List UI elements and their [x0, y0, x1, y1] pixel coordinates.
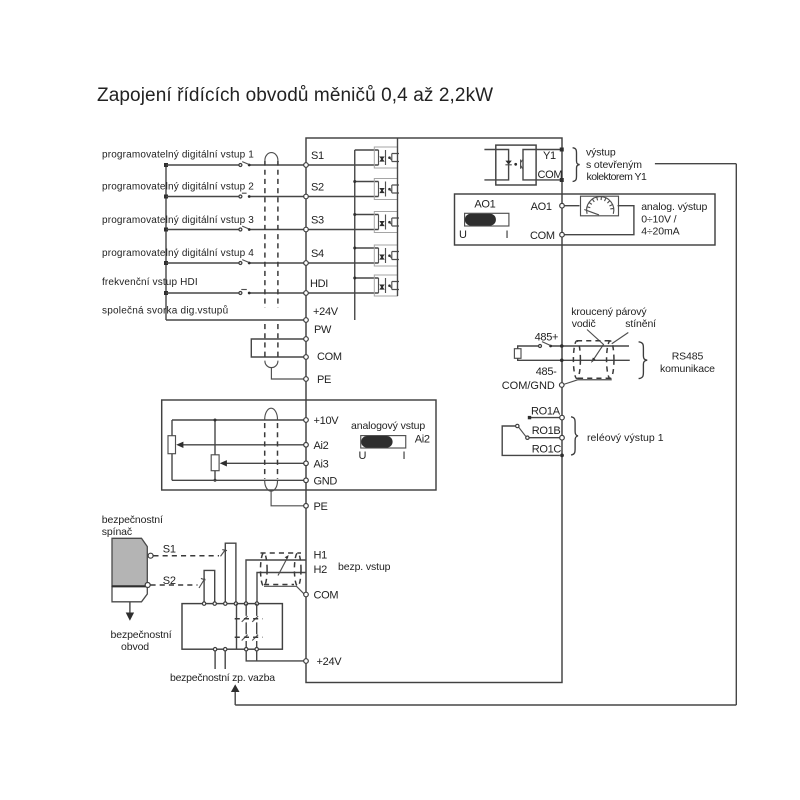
- node safety box bottom 4: [255, 648, 258, 651]
- node S1 bus junction: [164, 163, 168, 167]
- wire safety column C to +24V: [256, 651, 258, 661]
- node RO1A fixed contact: [528, 416, 531, 419]
- svg-text:S1: S1: [163, 543, 176, 555]
- svg-text:AO1: AO1: [531, 201, 552, 213]
- wire 485+ row: [518, 346, 629, 349]
- potentiometer Ai3: [214, 420, 216, 455]
- svg-text:PE: PE: [317, 374, 331, 386]
- wire H2 row: [257, 573, 306, 604]
- wire Y1 feedback to right: [655, 163, 736, 165]
- terminal safety S1: [148, 553, 153, 558]
- svg-text:H1: H1: [314, 550, 328, 562]
- wire S3 row into opto: [308, 229, 378, 231]
- brace Y1 output: [573, 148, 580, 182]
- optocoupler S4: [374, 245, 399, 266]
- resistor RS485 termination: [514, 349, 521, 359]
- wire HDI row: [166, 292, 304, 294]
- node safety box top 4: [234, 602, 237, 605]
- svg-text:Ai2: Ai2: [415, 434, 430, 446]
- node safety box top 2: [213, 602, 216, 605]
- wire shield drain to PE: [271, 368, 303, 380]
- terminal +24V safety: [304, 659, 309, 664]
- wire safety S1 loop: [225, 543, 236, 603]
- terminal RO1A: [560, 415, 565, 420]
- svg-text:kroucený párový: kroucený párový: [571, 306, 647, 318]
- terminal GND: [304, 478, 309, 483]
- terminal COM/GND: [559, 383, 564, 388]
- wire meter to COM: [564, 206, 634, 235]
- svg-text:U: U: [359, 450, 367, 462]
- svg-text:výstup: výstup: [586, 146, 616, 158]
- svg-text:S2: S2: [311, 182, 324, 194]
- contact safety relay C1: [252, 616, 258, 622]
- node Y1 terminal: [560, 148, 564, 152]
- potentiometer Ai2: [171, 420, 173, 436]
- svg-text:analog. výstup: analog. výstup: [641, 201, 707, 213]
- svg-text:programovatelný digitální vstu: programovatelný digitální vstup 4: [102, 248, 254, 259]
- svg-text:Ai2: Ai2: [314, 440, 329, 452]
- terminal S3: [304, 227, 309, 232]
- svg-text:RO1B: RO1B: [532, 425, 561, 437]
- wire S2 row into opto: [308, 196, 378, 198]
- node rail HDI: [353, 277, 356, 280]
- svg-text:S4: S4: [311, 248, 324, 260]
- terminal RO1B: [560, 435, 565, 440]
- svg-text:0÷10V /: 0÷10V /: [641, 214, 676, 226]
- shield analog input: [264, 423, 266, 479]
- svg-text:programovatelný digitální vstu: programovatelný digitální vstup 1: [102, 150, 254, 161]
- svg-text:I: I: [403, 450, 406, 462]
- node safety box top 5: [244, 602, 247, 605]
- wire safety S1 dashed: [153, 555, 219, 557]
- wire feedback stub 2: [224, 651, 226, 669]
- wire S3 row: [166, 229, 304, 231]
- terminal PE: [304, 377, 309, 382]
- node safety box top 3: [224, 602, 227, 605]
- switch S3: [239, 228, 242, 231]
- svg-text:bezpečnostní: bezpečnostní: [102, 514, 163, 526]
- meter analog output: [581, 196, 619, 216]
- wire optocoupler collector chain: [397, 138, 399, 296]
- svg-text:programovatelný digitální vstu: programovatelný digitální vstup 2: [102, 182, 254, 193]
- switch HDI: [239, 292, 242, 295]
- terminal PE analog: [304, 504, 309, 509]
- switch 485+: [539, 345, 542, 348]
- pointer vodic: [587, 330, 604, 362]
- node S3 bus junction: [164, 228, 168, 232]
- svg-text:komunikace: komunikace: [660, 363, 715, 375]
- node safety box bottom 3: [245, 648, 248, 651]
- wire opto S3 anode: [355, 214, 379, 216]
- node safety box bottom 1: [213, 648, 216, 651]
- node S2 bus junction: [164, 195, 168, 199]
- wire feedback bottom: [235, 704, 736, 706]
- terminal S2: [304, 194, 309, 199]
- wire safety to +24V: [246, 651, 304, 661]
- AO1 outer box: [455, 194, 716, 245]
- wire opto S4 anode: [355, 247, 379, 249]
- shield digital inputs upper: [264, 161, 266, 309]
- node rail S4: [353, 247, 356, 250]
- svg-text:RO1C: RO1C: [532, 444, 562, 456]
- contact safety relay B2: [242, 635, 248, 641]
- wire S1 row into opto: [308, 164, 378, 166]
- contact safety relay B1: [242, 616, 248, 622]
- switch AO1 U/I selector: [465, 213, 509, 226]
- svg-text:COM: COM: [530, 230, 555, 242]
- svg-text:stínění: stínění: [625, 318, 656, 330]
- svg-text:H2: H2: [314, 564, 328, 576]
- contact safety input: [278, 557, 288, 576]
- terminal PW: [304, 337, 309, 342]
- wire Ai3 row: [224, 462, 304, 464]
- contact safety relay C2: [252, 635, 258, 641]
- svg-text:bezpečnostní: bezpečnostní: [111, 629, 172, 641]
- node safety box bottom 2: [224, 648, 227, 651]
- shield tube RS485: [573, 341, 614, 379]
- terminal COM safety: [304, 592, 309, 597]
- optocoupler Y1 output: [484, 145, 561, 185]
- optocoupler HDI: [374, 275, 399, 296]
- svg-text:485+: 485+: [535, 332, 559, 344]
- wire opto S1 anode: [355, 149, 379, 151]
- safety switch body: [112, 538, 147, 586]
- svg-text:obvod: obvod: [121, 641, 149, 653]
- svg-text:Ai3: Ai3: [314, 458, 329, 470]
- svg-text:kolektorem Y1: kolektorem Y1: [587, 171, 647, 183]
- svg-text:+10V: +10V: [314, 415, 340, 427]
- terminal HDI: [304, 291, 309, 296]
- wire feedback stub 1: [214, 651, 216, 669]
- safety switch divider: [112, 585, 147, 587]
- svg-text:bezp. vstup: bezp. vstup: [338, 561, 391, 573]
- wire S1 row: [166, 164, 304, 166]
- switch S4: [239, 262, 242, 265]
- svg-text:analogový vstup: analogový vstup: [351, 420, 425, 432]
- arrow Ai2 wiper: [176, 442, 183, 448]
- switch S2: [239, 195, 242, 198]
- svg-text:spínač: spínač: [102, 526, 132, 538]
- terminal safety S2: [145, 583, 150, 588]
- svg-text:+24V: +24V: [317, 656, 343, 668]
- terminal COM AO1: [560, 232, 565, 237]
- wire opto HDI anode: [355, 277, 379, 279]
- svg-text:reléový výstup 1: reléový výstup 1: [587, 432, 664, 444]
- optocoupler S2: [374, 179, 399, 200]
- pointer stineni: [612, 333, 629, 344]
- svg-text:Zapojení řídících obvodů měnič: Zapojení řídících obvodů měničů 0,4 až 2…: [97, 85, 493, 106]
- brace RS485: [639, 342, 648, 379]
- terminal COM: [304, 355, 309, 360]
- wire common to +24V: [166, 319, 304, 321]
- svg-text:bezpečnostní zp. vazba: bezpečnostní zp. vazba: [170, 672, 275, 684]
- svg-text:s otevřeným: s otevřeným: [586, 159, 642, 171]
- node rail S2: [353, 180, 356, 183]
- wire shield drain to COM/GND: [562, 380, 612, 385]
- terminal +10V: [304, 418, 309, 423]
- internal +24V rail for optocouplers: [354, 150, 356, 320]
- wire analog shield drain to PE: [271, 491, 304, 506]
- arrow safety feedback: [231, 684, 240, 692]
- wire safety contact column C: [256, 604, 258, 650]
- contact safety S1: [221, 549, 226, 556]
- svg-text:RO1A: RO1A: [531, 406, 561, 418]
- svg-text:U: U: [459, 229, 467, 241]
- arrow safety switch to circuit: [129, 602, 131, 613]
- switch S1: [239, 164, 242, 167]
- analog input box: [162, 400, 436, 490]
- svg-text:HDI: HDI: [310, 278, 328, 290]
- optocoupler S1: [374, 147, 399, 168]
- terminal Ai2: [304, 443, 309, 448]
- node rail S3: [353, 213, 356, 216]
- wire H1 row: [246, 560, 306, 604]
- relay lever RO1: [526, 436, 529, 439]
- svg-text:COM/GND: COM/GND: [502, 380, 555, 392]
- terminal Ai3: [304, 461, 309, 466]
- wire RO1 common: [502, 426, 560, 455]
- wire safety contact column A: [236, 604, 238, 650]
- svg-text:PW: PW: [314, 324, 332, 336]
- svg-text:programovatelný digitální vstu: programovatelný digitální vstup 3: [102, 215, 254, 226]
- mechanical link dashes row2: [235, 636, 263, 638]
- node safety box top 1: [202, 602, 205, 605]
- wire safety S2 loop: [204, 570, 215, 603]
- svg-text:S1: S1: [311, 150, 324, 162]
- wire HDI row into opto: [308, 292, 378, 294]
- brace relay output: [571, 417, 578, 455]
- svg-text:Y1: Y1: [543, 150, 556, 162]
- svg-text:GND: GND: [314, 475, 338, 487]
- terminal S1: [304, 163, 309, 168]
- node COM terminal: [560, 178, 564, 182]
- node RO1C: [560, 454, 564, 458]
- svg-text:+24V: +24V: [313, 306, 339, 318]
- svg-text:AO1: AO1: [474, 199, 495, 211]
- svg-text:frekvenční vstup HDI: frekvenční vstup HDI: [102, 277, 198, 288]
- wire S4 row: [166, 262, 304, 264]
- node HDI bus junction: [164, 291, 168, 295]
- inverter main box: [306, 138, 562, 683]
- wire RO1A row: [530, 417, 560, 419]
- wire opto S2 anode: [355, 181, 379, 183]
- optocoupler S3: [374, 212, 399, 233]
- wire AO1 to meter: [564, 205, 579, 207]
- wire feedback right side: [735, 164, 737, 705]
- svg-text:COM: COM: [314, 590, 339, 602]
- wire S4 row into opto: [308, 262, 378, 264]
- svg-text:COM: COM: [538, 169, 563, 181]
- wire 485- row: [518, 358, 630, 360]
- shield digital inputs lower: [264, 324, 266, 361]
- node S4 bus junction: [164, 261, 168, 265]
- wire S2 row: [166, 196, 304, 198]
- arrow Ai3 wiper: [220, 460, 227, 466]
- wire RO1B row: [529, 437, 560, 439]
- mechanical link dashes row1: [235, 618, 263, 620]
- node safety box top 6: [255, 602, 258, 605]
- svg-text:COM: COM: [317, 351, 342, 363]
- svg-text:RS485: RS485: [672, 351, 704, 363]
- terminal AO1: [560, 203, 565, 208]
- safety switch lower part: [112, 586, 147, 602]
- contact safety S2: [199, 579, 205, 589]
- safety circuit box: [182, 604, 282, 650]
- node 485-: [560, 359, 564, 363]
- wire PW-COM jumper: [251, 339, 303, 357]
- switch Ai2 U/I selector: [361, 436, 406, 448]
- wire safety S2 dashed: [151, 584, 198, 586]
- svg-text:PE: PE: [314, 501, 328, 513]
- svg-text:vodič: vodič: [572, 318, 596, 330]
- wire +10V row: [172, 419, 304, 421]
- wire shield drain to COM safety: [264, 586, 304, 594]
- svg-text:I: I: [506, 229, 509, 241]
- svg-text:485-: 485-: [536, 366, 557, 378]
- wire safety contact column B: [245, 604, 247, 650]
- svg-text:4÷20mA: 4÷20mA: [641, 226, 679, 238]
- terminal +24V: [304, 318, 309, 323]
- svg-text:S3: S3: [311, 215, 324, 227]
- wire left digital common bus: [165, 165, 167, 320]
- wire Ai2 row: [180, 444, 304, 446]
- svg-text:společná svorka dig.vstupů: společná svorka dig.vstupů: [102, 305, 228, 317]
- terminal S4: [304, 261, 309, 266]
- shield safety input: [261, 553, 302, 586]
- wire GND row: [172, 479, 304, 481]
- node 485+: [560, 344, 564, 348]
